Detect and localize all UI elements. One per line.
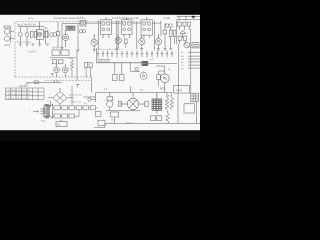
svg-text:a2 9v e: a2 9v e <box>52 47 61 50</box>
trimmer C1 <box>18 27 44 45</box>
wire vertical left of L2 <box>61 24 63 51</box>
svg-text:w 9 2 o m a 9 e 2 w o 9 a: w 9 2 o m a 9 e 2 w o 9 a <box>97 49 122 51</box>
right column small parts <box>178 36 186 44</box>
magnetic pickup head <box>4 26 14 45</box>
volume pot arrow block <box>180 30 186 38</box>
svg-text:9e a2 w 9k e2: 9e a2 w 9k e2 <box>17 42 31 44</box>
resistor R4 <box>56 22 59 47</box>
svg-text:e 02 9a wm m2 8e k2 9a: e 02 9a wm m2 8e k2 9a <box>6 94 31 96</box>
svg-text:9v o2 9a b2 w2 e4 w 9m: 9v o2 9a b2 w2 e4 w 9m <box>112 17 139 20</box>
wire to lamp <box>83 96 96 98</box>
svg-text:w02 9m: w02 9m <box>19 85 28 88</box>
osc coil T1 <box>44 30 48 44</box>
shield wire x98.5 <box>98 21 100 50</box>
main AVC bus <box>96 62 142 64</box>
wire erase bus arrow <box>26 83 63 85</box>
IFT0 small box <box>80 20 86 26</box>
under-motor bus <box>106 110 140 112</box>
IF transformer can IFT1 <box>101 17 112 38</box>
output stage wire <box>156 66 165 74</box>
motor M1 <box>120 98 146 111</box>
coupling cap pair C9 <box>85 63 93 78</box>
IF transistor BG3 <box>91 34 97 50</box>
top interstage wire <box>62 22 161 24</box>
chassis dashed border <box>15 22 150 77</box>
bus drop left <box>95 93 97 102</box>
AVC capacitor row <box>97 51 173 58</box>
resistor chain row B <box>53 110 79 118</box>
resistor R1 <box>30 32 33 38</box>
winding resistor W1 <box>165 93 173 110</box>
loudspeaker <box>45 104 53 119</box>
dashed AGC feedback line lower <box>44 79 91 81</box>
svg-text:w-m2: w-m2 <box>176 89 183 92</box>
ground AF <box>51 74 54 76</box>
svg-text:m-o2 9: m-o2 9 <box>28 51 36 54</box>
lower resistor group boxes <box>151 116 162 121</box>
transistor pinout detail case <box>40 101 50 117</box>
svg-text:a 9w: a 9w <box>166 96 171 98</box>
resistor chain row A <box>53 106 98 110</box>
motor feed vertical <box>131 86 133 98</box>
vertical wire x190.8 <box>190 29 192 93</box>
ratio label box <box>56 122 67 127</box>
scan background <box>0 0 200 141</box>
resistor on erase bus <box>35 81 39 84</box>
coupling circles C4 <box>50 33 57 37</box>
power transistor BG10 <box>160 74 169 93</box>
svg-text:m4 9k: m4 9k <box>163 17 171 20</box>
box under T2 <box>95 112 101 117</box>
small part under dashed <box>76 84 79 87</box>
small cap beside BG4 <box>125 39 128 48</box>
svg-text:BG5: BG5 <box>160 88 166 91</box>
feed wire from top <box>67 86 73 106</box>
bottom main bus <box>96 92 173 94</box>
pilot lamp <box>88 98 96 101</box>
small transformer T2 <box>107 93 113 111</box>
tone switch box dark <box>142 61 148 65</box>
AF bias boxes row <box>50 50 76 64</box>
right top terminal wires <box>177 16 201 21</box>
wire x176.4 <box>175 21 177 45</box>
neutralizing cap C5 <box>79 30 86 33</box>
svg-text:0w2 m: 0w2 m <box>126 123 133 125</box>
IF amp transistor BG5 <box>139 35 145 48</box>
input coil L1 <box>18 27 22 45</box>
shield wire x154.6 <box>154 21 156 51</box>
svg-text:9a o2 9w 9k2 0a: 9a o2 9w 9k2 0a <box>17 24 36 27</box>
erase head hatched box <box>191 93 199 102</box>
component value table <box>6 88 45 100</box>
caps hanging from AVC bus <box>113 63 124 81</box>
svg-text:o~ 9w o~ 2a: o~ 9w o~ 2a <box>69 102 82 104</box>
svg-text:a2 9w 0m 92: a2 9w 0m 92 <box>69 95 82 97</box>
vertical from BG3 to bus <box>95 48 97 63</box>
wire vertical x78 <box>77 24 79 51</box>
mains bridge rectifier <box>48 88 67 106</box>
svg-text:9m2 oa2 9w: 9m2 oa2 9w <box>98 61 110 63</box>
short bus upper <box>98 59 111 61</box>
svg-text:a9 2w: a9 2w <box>28 18 34 20</box>
first IF transistor BG2 <box>63 30 69 47</box>
shield wire between cans <box>117 21 118 49</box>
wire x160.9 <box>160 21 162 37</box>
ground symbols input stage <box>19 44 49 46</box>
right vertical wires bottom <box>178 93 197 124</box>
record head box <box>174 86 190 93</box>
box under motor <box>110 112 118 117</box>
output terminal box <box>192 43 199 48</box>
capacitor C2 <box>34 32 37 38</box>
IF transformer can IFT3 <box>141 17 153 38</box>
shield wire x136.8 <box>136 22 138 50</box>
detector diode cluster <box>163 23 176 50</box>
AF transistor BG9 <box>62 64 68 77</box>
long vertical feed wire right <box>177 44 179 93</box>
svg-text:c 9w 2m a2 9k w2 am 8: c 9w 2m a2 9k w2 am 8 <box>6 98 30 100</box>
AF transistor BG8 <box>54 64 60 77</box>
grounds under IF strip <box>115 48 159 51</box>
outline box right <box>184 104 194 113</box>
cap C14 <box>118 101 121 106</box>
detector transistor BG6 <box>155 34 161 49</box>
output transformer core block <box>152 93 162 113</box>
IF transformer can IFT2 <box>122 17 133 38</box>
pinout arrow label <box>33 111 39 113</box>
driver transistor BG7 <box>184 42 190 48</box>
wire to jack <box>131 63 177 72</box>
bottom long bus <box>105 123 200 125</box>
tiny illegible text smudges <box>6 17 185 127</box>
svg-text:9w a: 9w a <box>140 90 145 92</box>
converter transistor BG1 <box>36 22 43 44</box>
mixer out coil box L2 <box>66 26 75 30</box>
svg-text:9m: 9m <box>133 101 136 103</box>
lower winding resistor W2 <box>166 111 170 124</box>
svg-text:0m: 0m <box>44 27 47 30</box>
ground row stage2 <box>61 48 96 52</box>
emitter resistor zigzag <box>71 58 74 77</box>
cap C15 <box>145 101 148 106</box>
wire AGC drop <box>90 77 92 93</box>
battery box <box>98 120 105 125</box>
small box left of jack <box>135 68 138 71</box>
vertical wire x77 <box>76 50 78 80</box>
speaker terminal lines <box>188 52 200 68</box>
svg-text:c4 sw1 ws2 mwa pc 9n2 8o: c4 sw1 ws2 mwa pc 9n2 8o <box>54 17 85 20</box>
right column caps row <box>177 22 190 30</box>
IF amp transistor BG4 <box>115 34 121 48</box>
phone jack J1 <box>140 72 147 79</box>
base resistor of BG10 <box>157 71 165 86</box>
short stub bottom left <box>94 124 105 128</box>
svg-text:a w2 9k ma a2 9w wk 2a: a w2 9k ma a2 9w wk 2a <box>6 90 31 92</box>
dashed AGC feedback line upper <box>15 76 91 78</box>
